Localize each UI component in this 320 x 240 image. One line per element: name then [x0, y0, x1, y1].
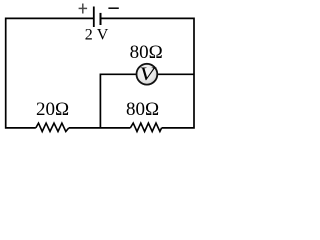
battery minus polarity mark	[108, 7, 118, 9]
battery B1: long positive plate	[93, 7, 95, 28]
wire: top-left segment, left side, bottom-left lead	[6, 18, 94, 128]
wire: bottom-right lead, right side, top-right segment	[101, 18, 195, 128]
svg-text:80Ω: 80Ω	[130, 42, 163, 63]
wire: bottom middle segment	[69, 127, 131, 129]
resistor 80ohm (bottom) zigzag	[130, 123, 161, 131]
battery B1: short negative plate	[100, 13, 102, 25]
svg-text:80Ω: 80Ω	[126, 99, 159, 120]
svg-text:20Ω: 20Ω	[36, 99, 69, 120]
battery plus polarity mark	[79, 4, 88, 14]
voltmeter V1 circle	[137, 64, 158, 85]
resistor 20ohm zigzag	[36, 123, 69, 131]
wire: voltmeter to right side	[157, 73, 194, 75]
svg-text:2 V: 2 V	[85, 27, 109, 44]
wire: inner branch vertical and horizontal to voltmeter	[100, 74, 136, 128]
